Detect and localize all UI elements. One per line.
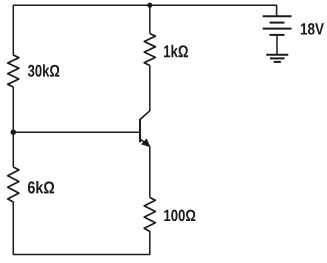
resistor R1 30kΩ xyxy=(8,55,19,87)
transistor Q1 (NPN) xyxy=(140,111,150,147)
wire 1k to collector xyxy=(149,66,151,112)
wire emitter to 100ohm xyxy=(149,146,151,197)
node junction top (collector branch to rail) xyxy=(147,3,152,8)
label 30kΩ xyxy=(28,64,59,77)
ground xyxy=(266,55,288,62)
wire top rail xyxy=(13,5,276,55)
resistor R3 1kΩ xyxy=(144,34,155,66)
node junction base (divider to base wire) xyxy=(11,130,16,135)
wire left branch upper (below 30k to base node) xyxy=(12,87,14,167)
resistor R4 100Ω xyxy=(144,198,155,232)
label 6kΩ xyxy=(28,181,54,194)
battery V1 xyxy=(263,16,292,54)
wire middle top (dot to 1k) xyxy=(149,5,151,33)
resistor R2 6kΩ xyxy=(8,167,19,202)
label 18V xyxy=(301,23,324,35)
label 100Ω xyxy=(164,210,195,222)
label 1kΩ xyxy=(164,45,188,57)
wire base (node to transistor) xyxy=(13,131,139,133)
wire left branch lower (below 6k to bottom) xyxy=(13,202,150,255)
